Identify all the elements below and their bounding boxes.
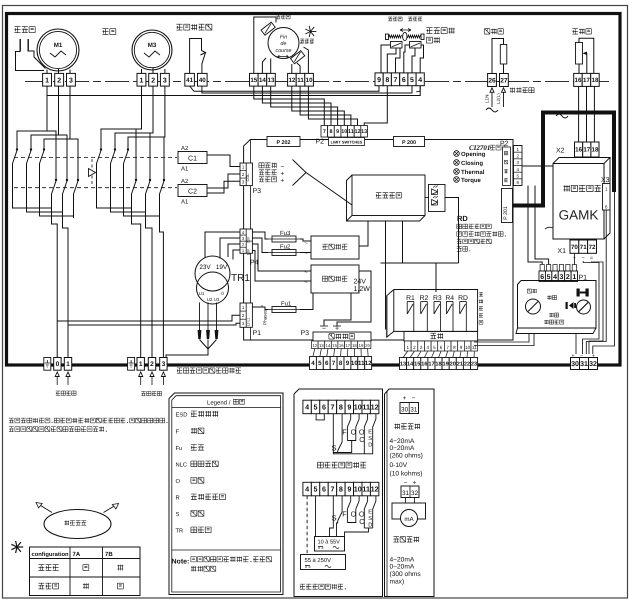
M3 terminal 1: [137, 73, 146, 86]
wires P2 pins down to P1 panel: [528, 186, 542, 265]
svg-text:−: −: [582, 256, 585, 262]
svg-text:17: 17: [428, 362, 434, 368]
svg-text:23V: 23V: [199, 264, 211, 271]
svg-text:L1N: L1N: [484, 95, 489, 103]
svg-text:−: −: [412, 395, 416, 402]
svg-text:~: ~: [304, 251, 308, 257]
terminal 15: [250, 73, 259, 86]
svg-text:1: 1: [139, 77, 143, 84]
svg-text:~: ~: [304, 241, 308, 247]
svg-text:6: 6: [402, 77, 406, 84]
P2 right connector label box: [503, 147, 511, 186]
three-phase note paragraph: [9, 418, 14, 423]
signal box 信号: [404, 332, 478, 342]
svg-text:7: 7: [332, 360, 336, 367]
svg-text:7: 7: [330, 485, 334, 494]
right knob: [577, 300, 591, 314]
terminals 9..4: [375, 73, 383, 86]
P4 connector: [240, 229, 252, 253]
svg-text:R2: R2: [420, 295, 429, 302]
label 单相电源: [56, 391, 60, 395]
svg-text:mA: mA: [404, 516, 414, 523]
svg-text:27: 27: [500, 77, 508, 84]
svg-text:16: 16: [575, 147, 582, 154]
svg-text:7: 7: [323, 129, 326, 135]
hook under terminal 4: [416, 86, 420, 92]
interface terminals 13-23: [400, 358, 407, 370]
svg-text:9: 9: [347, 403, 351, 412]
svg-text:C: C: [359, 435, 364, 444]
svg-text:4−20mA: 4−20mA: [390, 557, 415, 564]
P202 connector box: [267, 137, 300, 147]
svg-text:18: 18: [592, 147, 599, 154]
svg-text:Legend /: Legend /: [207, 400, 231, 407]
svg-text:8: 8: [329, 129, 332, 135]
internal supply box 内部供电: [311, 236, 359, 259]
enclosure frame (actuator boundary): [7, 14, 621, 366]
status indicators: [454, 151, 460, 157]
svg-text:D: D: [368, 443, 372, 449]
mA meter: [405, 498, 407, 504]
svg-text:5: 5: [547, 274, 551, 281]
svg-text:X1: X1: [558, 248, 567, 255]
GAMK box 3D: [553, 158, 610, 164]
svg-text:31: 31: [580, 361, 588, 368]
P2 limit pins 7..13: [321, 126, 328, 138]
terminal 40: [198, 73, 208, 86]
arrow-bar icon: [566, 302, 568, 309]
svg-text:A2: A2: [181, 178, 189, 185]
svg-text:S: S: [368, 436, 372, 442]
svg-text:4: 4: [418, 77, 422, 84]
svg-text:0−20mA: 0−20mA: [390, 564, 415, 571]
wire internal supply to logic: [359, 221, 368, 246]
svg-text:P2: P2: [316, 139, 325, 146]
svg-text:12: 12: [355, 129, 361, 135]
svg-text:4: 4: [305, 403, 309, 412]
svg-text:4−20mA: 4−20mA: [390, 438, 415, 445]
svg-text:O: O: [351, 427, 357, 436]
mains arrows: [490, 88, 494, 93]
svg-text:13: 13: [319, 343, 324, 348]
potentiometer label 电位器: [572, 29, 578, 34]
label 接主电源: [510, 88, 515, 93]
wire: 40 to torque-5: [202, 86, 412, 93]
svg-text:A1: A1: [181, 199, 189, 206]
svg-text:24V: 24V: [354, 279, 367, 286]
svg-text:15: 15: [332, 343, 337, 348]
wires potentiometer to GAMK X2: [578, 86, 580, 142]
logic control box 逻辑控制: [347, 175, 426, 221]
svg-text:0-10V: 0-10V: [390, 462, 408, 469]
svg-text:11: 11: [297, 77, 304, 84]
svg-text:14: 14: [407, 362, 414, 368]
svg-text:X2: X2: [556, 148, 565, 155]
svg-text:0: 0: [56, 361, 60, 368]
svg-text:23: 23: [471, 362, 477, 368]
board left rail line: [249, 140, 251, 341]
motor M3: [132, 30, 172, 70]
svg-text:55 à 250V: 55 à 250V: [305, 557, 332, 564]
voltage source box 55-250V: [301, 555, 346, 570]
svg-text:4: 4: [426, 345, 429, 350]
contactor coil C2: [178, 185, 207, 197]
star marker bottom: [17, 546, 23, 548]
svg-text:10: 10: [465, 345, 471, 350]
torque switch label 扭矩限位开关: [426, 28, 432, 34]
svg-text:30: 30: [571, 361, 579, 368]
power type ellipse: [44, 510, 111, 539]
svg-text:P4: P4: [250, 260, 259, 267]
contact bottoms merging down right: [97, 164, 132, 209]
contactor C2 contacts group1: [55, 179, 57, 181]
svg-text:C1: C1: [188, 156, 197, 163]
svg-text:6: 6: [540, 274, 544, 281]
svg-text:40: 40: [199, 77, 206, 84]
svg-text:(260 ohms): (260 ohms): [390, 453, 423, 460]
svg-text:10: 10: [306, 77, 313, 84]
svg-text:3: 3: [420, 345, 423, 350]
svg-text:~: ~: [304, 270, 308, 276]
svg-text:Fu: Fu: [176, 446, 183, 452]
TR1 primary wires up to P4: [205, 232, 240, 258]
svg-text:18: 18: [435, 362, 441, 368]
svg-text:1: 1: [66, 361, 70, 368]
terminal 18: [591, 73, 600, 86]
right cam switch: [291, 51, 305, 64]
svg-text:P 200: P 200: [402, 140, 416, 146]
svg-text:2: 2: [151, 77, 155, 84]
GAMK bottom terminals 70 71 72: [570, 240, 579, 253]
svg-text:17: 17: [345, 343, 350, 348]
svg-text:P 201: P 201: [503, 206, 509, 220]
terminal 10: [305, 73, 314, 86]
svg-text:7: 7: [446, 345, 449, 350]
svg-text:17: 17: [583, 77, 590, 84]
svg-text:GAMK: GAMK: [559, 208, 599, 223]
svg-text:6: 6: [325, 360, 329, 367]
contactor C1 contacts group1: [16, 148, 18, 150]
svg-text:C2: C2: [188, 189, 197, 196]
terminal 0: [54, 358, 61, 371]
svg-text:26: 26: [488, 77, 496, 84]
svg-text:19: 19: [359, 343, 364, 348]
svg-text:19V: 19V: [216, 264, 228, 271]
svg-text:8: 8: [339, 360, 343, 367]
signal pin row 1-11: [405, 341, 412, 351]
svg-text:Closing: Closing: [461, 160, 483, 167]
svg-text:72: 72: [589, 244, 596, 251]
terminal 41: [185, 73, 195, 86]
svg-text:1: 1: [407, 345, 410, 350]
M3 lead wires: [141, 69, 143, 73]
svg-text:max): max): [390, 579, 405, 586]
relay box R1-RD: [387, 290, 394, 338]
svg-text:~: ~: [304, 280, 308, 286]
legend box: [169, 393, 283, 595]
svg-text:(300 ohms: (300 ohms: [390, 571, 422, 578]
M1 terminal 3: [67, 73, 76, 86]
svg-text:Note:: Note:: [172, 559, 190, 566]
M1 terminal 1: [43, 73, 52, 86]
svg-text:31: 31: [410, 406, 418, 413]
svg-text:10: 10: [341, 129, 347, 135]
arrow over spring: [400, 29, 411, 32]
svg-text:32: 32: [411, 490, 419, 497]
svg-text:9: 9: [377, 77, 381, 84]
svg-text:F: F: [342, 427, 347, 436]
capacitor 电容器 label: [14, 27, 20, 33]
svg-text:3: 3: [163, 77, 167, 84]
svg-text:14: 14: [259, 77, 266, 84]
svg-text:P1: P1: [253, 330, 262, 337]
hand icon: [577, 289, 580, 297]
svg-text:16: 16: [339, 343, 344, 348]
svg-text:12: 12: [371, 403, 379, 412]
svg-text:+: +: [335, 326, 339, 333]
single phase arrows: [55, 372, 59, 377]
svg-text:A1: A1: [181, 166, 189, 173]
relay contacts: [406, 302, 408, 314]
svg-text:+: +: [403, 395, 407, 402]
svg-text:Opening: Opening: [461, 151, 486, 158]
svg-text:7B: 7B: [105, 551, 113, 558]
LIMIT SWITCHES box: [329, 138, 365, 146]
svg-text:1: 1: [572, 274, 576, 281]
svg-text:E: E: [368, 429, 372, 435]
svg-text:7A: 7A: [73, 551, 81, 558]
remote command box 远程命令: [313, 332, 371, 341]
svg-text:S: S: [332, 444, 337, 453]
wires P4 to fuses to supplies: [252, 232, 268, 239]
svg-text:71: 71: [580, 244, 587, 251]
star marker: [311, 31, 317, 33]
svg-text:32: 32: [589, 361, 597, 368]
terminal 13: [267, 73, 276, 86]
ellipse arrows: [39, 505, 52, 513]
contact control strip 4..12: [303, 400, 311, 414]
svg-text:16: 16: [575, 77, 582, 84]
stub under 5: [316, 414, 324, 420]
terminal 17: [582, 73, 591, 86]
svg-text:23V: 23V: [246, 236, 250, 243]
svg-text:O: O: [351, 509, 357, 518]
svg-text:1,2W: 1,2W: [354, 286, 371, 293]
transformer TR1: [195, 256, 230, 291]
GAMK texts: [564, 185, 570, 191]
contact bottoms merging down left: [13, 164, 52, 209]
wires fin de course to P2 limit pins: [254, 86, 324, 125]
svg-text:19V: 19V: [246, 248, 250, 255]
cable crossing marks: [486, 108, 498, 112]
left cam switch: [261, 22, 275, 35]
svg-text:−: −: [404, 480, 408, 487]
terminal 14: [258, 73, 267, 86]
svg-text:A2: A2: [181, 145, 189, 152]
svg-text:18: 18: [592, 77, 599, 84]
svg-text:20: 20: [365, 343, 370, 348]
svg-text:11: 11: [348, 129, 354, 135]
main terminal bus dash-dot line: [25, 80, 612, 82]
left knob: [526, 299, 541, 314]
bracket to logic: [293, 160, 307, 186]
contactor row2 dashed linkage: [14, 187, 177, 189]
svg-text:L2 L1: L2 L1: [246, 318, 250, 327]
svg-text:TR: TR: [176, 529, 184, 535]
terminal 1 (3ph): [137, 358, 144, 371]
svg-text:de: de: [281, 41, 287, 47]
svg-text:6: 6: [440, 345, 443, 350]
direction labels: [276, 15, 280, 19]
feedback label: [393, 537, 399, 542]
svg-text:5: 5: [410, 77, 414, 84]
svg-text:30: 30: [401, 406, 409, 413]
svg-text:Fin: Fin: [280, 35, 287, 41]
GAMK top terminals 16 17 18: [575, 142, 583, 157]
svg-text:M1: M1: [54, 42, 63, 49]
CI2701 board outline: [244, 140, 513, 341]
svg-text:Phases: Phases: [263, 309, 268, 325]
svg-text:U3: U3: [214, 297, 220, 302]
voltage control wires/switches: [306, 496, 308, 556]
left power verticals to bottom terminals: [52, 194, 58, 358]
svg-text:0: 0: [221, 291, 224, 296]
right power verticals to bottom terminals: [132, 194, 141, 358]
svg-text:P3: P3: [301, 330, 310, 337]
svg-text:14: 14: [326, 343, 331, 348]
svg-text:13: 13: [400, 362, 406, 368]
svg-text:U1: U1: [199, 291, 205, 296]
mains feed wires to P1: [57, 315, 240, 321]
capacitor wires: [16, 52, 45, 71]
input signal label: [394, 424, 400, 429]
terminal 2 (3ph): [148, 358, 155, 371]
svg-text:RD: RD: [457, 214, 468, 223]
svg-text:2: 2: [566, 274, 570, 281]
svg-text:12: 12: [312, 343, 317, 348]
logic wires: [425, 197, 429, 199]
P3 pin labels: [259, 163, 264, 168]
three phase arrows: [139, 372, 143, 377]
voltage control strip 4..12: [303, 482, 311, 496]
wire: 41 to torque-9: [190, 86, 379, 92]
interface terminals 4-12: [310, 357, 317, 370]
svg-text:Thermal: Thermal: [461, 169, 485, 176]
svg-text:R4: R4: [445, 295, 454, 302]
svg-text:P 202: P 202: [277, 140, 291, 146]
svg-text:5: 5: [314, 485, 318, 494]
contactor row1 dashed linkage: [14, 156, 177, 158]
svg-text:TR1: TR1: [231, 273, 250, 284]
terminal 3 (3ph): [160, 358, 167, 371]
P1 panel stub boxes and terminals 6..1: [540, 265, 544, 272]
P201 connector: [502, 189, 513, 223]
torque wires: [381, 45, 391, 73]
terminal 11: [296, 73, 305, 86]
svg-text:4: 4: [305, 485, 309, 494]
svg-text:course: course: [276, 48, 292, 54]
wires signal pins to panel: [474, 334, 529, 343]
dash stub right of circle: [300, 42, 314, 44]
heater resistor: [492, 39, 504, 74]
P200 connector box: [394, 137, 425, 147]
M3 terminal 3: [160, 73, 169, 86]
M1 lead wires: [46, 70, 48, 74]
svg-text:U2: U2: [207, 297, 213, 302]
mA column box: [385, 389, 435, 597]
svg-text:10 à 55V: 10 à 55V: [318, 539, 341, 546]
heater label 加热器: [484, 29, 490, 34]
svg-text:3: 3: [162, 361, 166, 368]
svg-text:15: 15: [250, 77, 257, 84]
svg-text:12: 12: [288, 77, 295, 84]
svg-text:COL: COL: [246, 174, 250, 182]
thick cable P201 to X3: [513, 113, 615, 206]
motor M1: [37, 29, 79, 71]
label 三相电源: [141, 392, 145, 396]
svg-text:9: 9: [336, 129, 339, 135]
svg-text:31: 31: [402, 490, 410, 497]
motor label 电机: [102, 29, 108, 35]
torque contacts: [391, 42, 403, 49]
M1 terminal 2: [55, 73, 64, 86]
svg-text:configuration: configuration: [32, 551, 69, 558]
svg-text:7: 7: [330, 403, 334, 412]
svg-text:6: 6: [322, 485, 326, 494]
wire torque-8 down to P2 pin13: [364, 86, 387, 126]
voltage control label: [300, 584, 305, 589]
svg-text:6: 6: [322, 403, 326, 412]
contact control switches: [333, 414, 373, 454]
contact control label: [317, 462, 323, 468]
svg-text:−: −: [322, 326, 326, 333]
svg-text:9: 9: [346, 360, 350, 367]
svg-text:13: 13: [361, 129, 367, 135]
middle example box: [294, 389, 383, 597]
svg-text:16: 16: [421, 362, 427, 368]
svg-text:12: 12: [365, 360, 372, 367]
svg-text:R3: R3: [433, 295, 442, 302]
svg-text:0−20mA: 0−20mA: [390, 445, 415, 452]
svg-text:C: C: [359, 517, 364, 526]
svg-text:M3: M3: [148, 42, 157, 49]
terminal 16: [574, 73, 583, 86]
svg-text:Torque: Torque: [461, 177, 482, 184]
wires external supply to remote cmd terminals: [324, 293, 351, 326]
terminal 12: [288, 73, 297, 86]
limit switch Fin de course circle: [268, 28, 299, 59]
svg-text:CI2701: CI2701: [469, 144, 490, 152]
contactor C2 contacts group2: [135, 179, 137, 181]
svg-text:+: +: [413, 480, 417, 487]
svg-text:17: 17: [583, 147, 590, 154]
svg-text:2: 2: [413, 345, 416, 350]
svg-text:ESD: ESD: [176, 412, 188, 419]
svg-text:9: 9: [460, 345, 463, 350]
terminal 26: [488, 74, 497, 87]
svg-text:−: −: [281, 164, 285, 171]
svg-text:41: 41: [186, 77, 193, 84]
svg-text:10: 10: [354, 485, 362, 494]
svg-text:8: 8: [453, 345, 456, 350]
P3 connector (board left): [240, 163, 252, 186]
M3 wires down to contacts: [101, 86, 142, 148]
svg-text:RD: RD: [458, 295, 468, 302]
svg-text:5: 5: [433, 345, 436, 350]
svg-text:(10 kohms): (10 kohms): [390, 471, 423, 478]
svg-text:F: F: [342, 509, 347, 518]
svg-text:O: O: [176, 478, 181, 485]
